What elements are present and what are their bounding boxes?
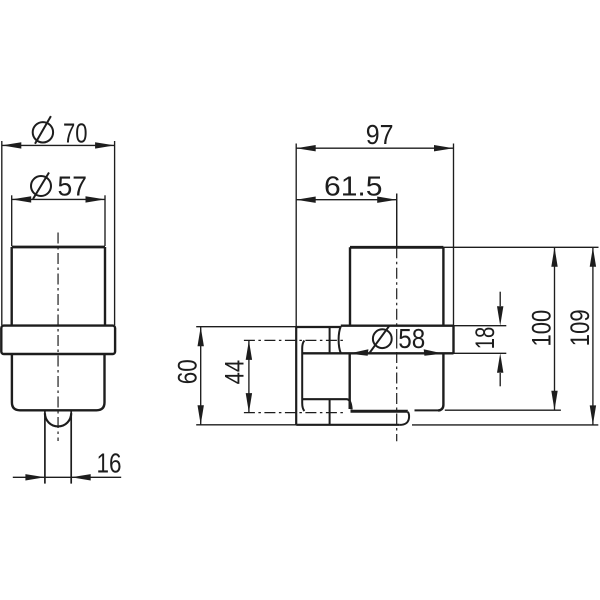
screw centerline upper [244,339,345,341]
dimension 61.5 right extension [396,194,398,248]
dimension 109 label (rotated) [565,309,595,346]
lower cup body [12,354,105,410]
dimension Ø70 extension lines [2,141,115,325]
109 dimension bottom extension [412,424,598,426]
bracket + plate bottom edge [296,424,399,426]
dimension 60 line with arrows [200,327,202,425]
bottom stem lines (16 extension) [45,410,71,483]
dimension 16 line with arrows [13,476,121,478]
glass top edge (side view) [350,246,443,249]
glass rim top edge [12,246,105,249]
dimension 61.5 line with arrows [296,199,397,201]
dimension 100 line with arrows [554,247,556,410]
plate rounded right end [399,412,409,425]
svg-text:109: 109 [565,309,595,346]
screw centerline lower [244,412,345,414]
svg-text:18: 18 [470,327,500,350]
dimension 97 line with arrows [296,147,453,149]
dimension 100 label (rotated) [527,310,557,347]
left view centerline [57,233,59,442]
holder ring band (side) [303,326,454,354]
dimension Ø57 line with arrows [12,198,105,200]
100 dimension bottom extension [445,409,561,411]
dimension 60 label (rotated) [172,359,202,384]
glass side walls above ring [350,247,443,325]
svg-text:61.5: 61.5 [324,170,383,201]
svg-text:70: 70 [63,117,88,148]
bracket back recess curve [302,341,304,412]
bracket front face vertical (upper) [329,327,331,353]
cup centerline vertical [396,194,398,442]
bracket front face vertical (lower) [329,399,331,425]
dimension 109 line with arrows [592,247,594,425]
dimension 18 extension lines [454,326,507,354]
svg-text:58: 58 [398,323,425,354]
svg-text:97: 97 [366,119,394,150]
svg-text:16: 16 [97,447,122,478]
dimension Ø57 label [31,170,87,201]
dimension Ø57 extension lines [12,195,105,246]
bracket top edge [296,326,341,328]
holder bottom lip edge under glass [415,409,441,411]
dimension 18 label (rotated) [470,327,500,350]
svg-text:100: 100 [527,310,557,347]
svg-text:44: 44 [220,360,250,385]
dimension 44 label (rotated) [220,360,250,385]
dimension 60 extension lines [196,327,296,425]
wall line / bracket left edge [295,144,297,328]
dimension 97 right extension line [453,144,455,326]
svg-text:60: 60 [172,359,202,384]
dimension 18 line with outside arrows [499,292,501,387]
bottom dome (glass knob) [45,413,71,426]
svg-text:57: 57 [58,170,88,201]
glass lower part below ring [350,353,444,410]
glass bottom thick edge [351,410,408,413]
dimension Ø58 arrows (tilted, on band lower edge) [349,349,444,355]
dimension 44 line with arrows [248,340,250,412]
glass side walls [12,247,105,326]
holder ring band (front) [1,326,115,354]
dimension Ø70 label [33,116,88,148]
arm bottom edge with curve into glass [303,399,352,409]
dimension Ø58 label [370,323,426,354]
glass top extension to 100/109 dims [443,246,598,248]
dimension Ø70 line with arrows [2,144,115,146]
